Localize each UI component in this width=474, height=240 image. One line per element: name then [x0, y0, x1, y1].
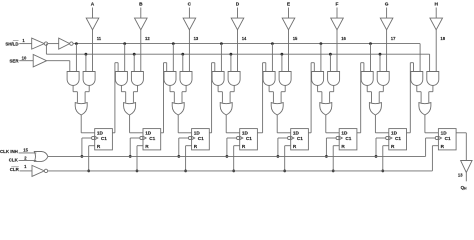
- svg-text:QH: QH: [461, 185, 467, 191]
- svg-text:C1: C1: [198, 136, 204, 141]
- svg-text:CLK INH: CLK INH: [0, 149, 18, 154]
- svg-text:17: 17: [391, 36, 396, 41]
- svg-text:CLK: CLK: [9, 157, 19, 162]
- svg-text:SH/LD: SH/LD: [5, 41, 18, 46]
- svg-text:C1: C1: [297, 136, 303, 141]
- svg-text:1D: 1D: [341, 130, 348, 135]
- svg-text:C1: C1: [149, 136, 155, 141]
- svg-text:C1: C1: [395, 136, 401, 141]
- svg-text:14: 14: [242, 36, 247, 41]
- svg-text:D: D: [236, 2, 240, 8]
- svg-text:15: 15: [23, 148, 28, 153]
- svg-text:1D: 1D: [293, 130, 300, 135]
- svg-text:B: B: [139, 2, 143, 8]
- svg-text:1D: 1D: [194, 130, 201, 135]
- svg-text:12: 12: [145, 36, 150, 41]
- svg-text:SER: SER: [9, 59, 19, 64]
- svg-text:16: 16: [341, 36, 346, 41]
- svg-text:13: 13: [458, 172, 463, 177]
- svg-text:C1: C1: [345, 136, 351, 141]
- svg-text:11: 11: [97, 36, 102, 41]
- svg-text:C: C: [188, 2, 192, 8]
- svg-text:1D: 1D: [391, 130, 398, 135]
- svg-text:H: H: [434, 2, 438, 8]
- svg-text:C1: C1: [101, 136, 107, 141]
- svg-text:18: 18: [440, 36, 445, 41]
- svg-text:C1: C1: [445, 136, 451, 141]
- svg-text:1D: 1D: [242, 130, 249, 135]
- svg-text:1D: 1D: [441, 130, 448, 135]
- svg-text:C1: C1: [246, 136, 252, 141]
- svg-text:1D: 1D: [145, 130, 152, 135]
- svg-text:10: 10: [22, 55, 27, 60]
- svg-text:13: 13: [194, 36, 199, 41]
- svg-text:A: A: [91, 2, 95, 8]
- svg-text:CLR: CLR: [10, 167, 20, 172]
- svg-text:1D: 1D: [97, 130, 104, 135]
- svg-text:R: R: [194, 144, 198, 149]
- svg-text:F: F: [336, 2, 339, 8]
- svg-text:15: 15: [293, 36, 298, 41]
- svg-text:G: G: [385, 2, 389, 8]
